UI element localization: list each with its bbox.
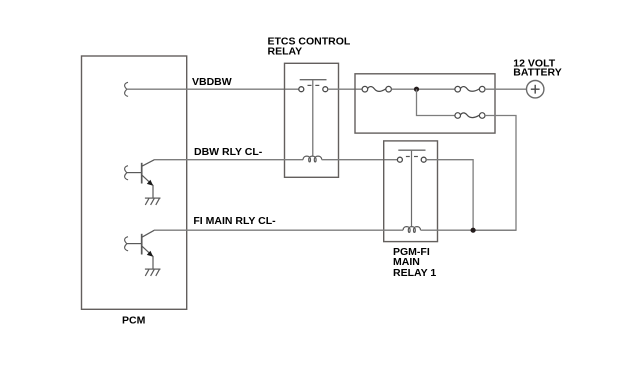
ETCS relay coil — [303, 156, 322, 162]
svg-text:VBDBW: VBDBW — [192, 76, 232, 88]
PGM-FI relay contact terminal circles — [397, 157, 426, 162]
junction node at right rail — [471, 228, 476, 233]
wire VBDBW (ETCS contact to fuse F1) — [328, 88, 362, 90]
svg-text:FI MAIN RLY CL-: FI MAIN RLY CL- — [193, 215, 276, 227]
svg-text:BATTERY: BATTERY — [513, 66, 561, 78]
ground G2 — [145, 269, 161, 276]
fuse F1 — [362, 86, 391, 92]
PGM-FI relay contact bar — [398, 149, 425, 151]
wire DBW RLY CL- (Q1 collector to ETCS coil) — [154, 159, 303, 161]
12 VOLT BATTERY label — [513, 58, 561, 79]
wire FI MAIN RLY CL- (Q2 collector to PGM-FI coil) — [154, 229, 403, 231]
wire junction down to F3 — [417, 89, 455, 115]
junction node in fuse box — [414, 87, 419, 92]
PGM-FI MAIN RELAY 1 label — [393, 246, 436, 279]
connector break squiggle on Q2 base — [125, 237, 128, 251]
PGM-FI relay contact link (vertical to coil) — [411, 151, 413, 227]
wire F1 to F2 — [391, 88, 455, 90]
connector break squiggle on Q1 base — [125, 166, 128, 180]
ETCS relay contact dashes — [308, 84, 320, 86]
ETCS relay contact link (vertical to coil) — [312, 80, 314, 155]
svg-text:RELAY 1: RELAY 1 — [393, 267, 436, 279]
PGM-FI main relay 1 box — [384, 141, 438, 242]
FI MAIN RLY CL- label — [193, 215, 276, 227]
ETCS relay contact bar — [300, 79, 327, 81]
VBDBW label — [192, 76, 232, 88]
PGM-FI relay coil — [403, 227, 420, 233]
svg-text:PCM: PCM — [122, 314, 146, 326]
ETCS CONTROL RELAY label — [268, 36, 351, 58]
wire PGM-FI contact to right rail — [426, 160, 473, 231]
wire F2 to battery — [485, 88, 527, 90]
PCM box — [82, 56, 187, 309]
fuse F2 — [455, 86, 485, 92]
wire VBDBW (PCM to ETCS relay contact) — [127, 88, 302, 90]
svg-text:RELAY: RELAY — [268, 45, 303, 57]
wire ETCS coil to PGM-FI relay contact — [322, 159, 400, 161]
ETCS control relay box — [285, 63, 339, 177]
ground G1 — [145, 198, 161, 205]
connector break squiggle on VBDBW wire — [125, 82, 128, 96]
PCM label — [122, 314, 146, 326]
battery terminal symbol — [527, 81, 544, 98]
PGM-FI relay contact dashes — [406, 156, 418, 158]
transistor Q2 — [127, 230, 154, 269]
transistor Q1 — [127, 160, 154, 198]
ETCS relay contact terminal circles — [299, 87, 328, 92]
fuse F3 — [455, 113, 485, 119]
DBW RLY CL- label — [194, 146, 263, 158]
wire PGM-FI coil to junction — [421, 229, 517, 231]
fuse box — [355, 74, 495, 133]
svg-text:DBW RLY CL-: DBW RLY CL- — [194, 146, 263, 158]
wire F3 to right rail — [473, 116, 516, 231]
